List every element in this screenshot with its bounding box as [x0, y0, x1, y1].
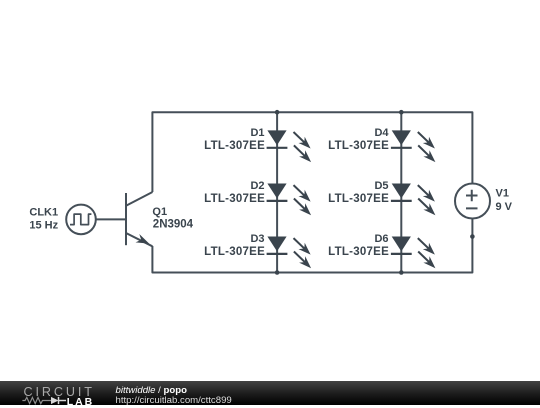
svg-text:LTL-307EE: LTL-307EE: [204, 140, 265, 152]
svg-text:Q1: Q1: [152, 206, 167, 218]
svg-text:D6: D6: [374, 233, 388, 245]
svg-text:D2: D2: [250, 180, 264, 192]
svg-text:D4: D4: [374, 127, 389, 139]
svg-text:LTL-307EE: LTL-307EE: [328, 193, 389, 205]
svg-text:LTL-307EE: LTL-307EE: [204, 246, 265, 258]
svg-text:D3: D3: [250, 233, 264, 245]
svg-text:LTL-307EE: LTL-307EE: [328, 246, 389, 258]
svg-text:D1: D1: [250, 127, 264, 139]
svg-text:15 Hz: 15 Hz: [29, 220, 58, 232]
svg-text:LTL-307EE: LTL-307EE: [328, 140, 389, 152]
svg-text:CLK1: CLK1: [29, 207, 58, 219]
svg-text:V1: V1: [496, 188, 509, 200]
svg-text:9 V: 9 V: [496, 201, 513, 213]
svg-text:LTL-307EE: LTL-307EE: [204, 193, 265, 205]
svg-text:D5: D5: [374, 180, 388, 192]
svg-text:2N3904: 2N3904: [153, 219, 194, 231]
